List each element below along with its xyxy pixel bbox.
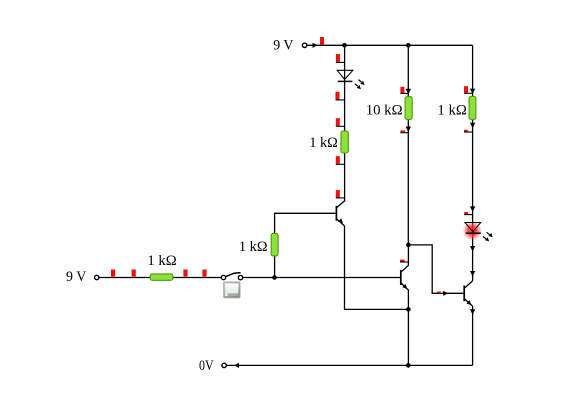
wire 0V rail [226,364,472,366]
wire Q1 emitter down and right to Q2 emitter node [345,226,409,310]
current arrow down above D2 [470,206,475,211]
resistor R3 1 kOhm (vertical, x=472.6) [469,96,476,119]
current dash sliver above Q2 collector [400,260,408,262]
wire middle vertical (x=408.3) top rail down to node C2 [407,45,409,245]
current arrow down below D2 [470,246,475,251]
resistor R1 1 kOhm (horizontal, left 9V rail) [150,274,173,280]
svg-text:9 V: 9 V [273,38,294,54]
current arrow right on Q3 base wire [443,291,448,296]
switch SW1 push button cap [224,282,240,298]
current dash 5 on left branch [336,190,345,198]
current dash sliver below R2 [400,130,408,132]
current dash sliver below R3 [464,130,473,132]
svg-text:9 V: 9 V [66,269,87,285]
svg-text:1 kΩ: 1 kΩ [147,253,176,269]
transistor Q2 (NPN) [401,245,409,310]
switch SW1 push-to-make contacts [221,273,242,280]
junction node top-left [342,43,347,48]
wire switch to Q2 base [243,277,401,279]
current dash 3 on 9V left rail [183,270,187,277]
resistor R5 1 kOhm (vertical, x=344.6) [341,131,348,153]
junction node 0V rail [406,363,411,368]
wire Q2 collector node to Q3 base [408,245,464,293]
wire right vertical (x=472.6) top corner down to Q3 collector [472,45,474,281]
resistor R4 1 kOhm (vertical, x=274.6) [271,233,278,256]
current dash 4 on 9V left rail [202,270,206,277]
svg-text:1 kΩ: 1 kΩ [239,239,268,255]
svg-text:0V: 0V [199,358,214,374]
transistor Q1 (NPN) [336,201,344,226]
current arrow down Q3 emitter [470,309,475,314]
current arrow left after 0V terminal [234,363,239,368]
current arrow down below R2 [406,127,411,132]
wire R4 top corner to Q1 base [275,213,337,277]
current dash on top rail [320,37,324,45]
current dash above R3 [464,86,473,93]
current dash 1 on 9V left rail [111,270,115,277]
current dash sliver above D2 [464,212,472,215]
terminal 0V [222,363,226,367]
current dash 3 on left branch [336,118,345,126]
wire 9V left rail to switch [99,277,221,279]
current arrow down above R2 [406,89,411,94]
wire Q3 emitter down to 0V rail [472,306,474,365]
junction node top-middle [406,43,411,48]
current arrow down Q3 collector [470,271,475,276]
junction node Q2 collector [406,243,411,248]
svg-text:1 kΩ: 1 kΩ [437,102,467,118]
resistor R2 10 kOhm (vertical, x=408.3) [405,97,412,120]
junction node base rail [272,275,277,280]
LED D2 (lit, right branch) [463,221,493,241]
current arrow right after top 9V terminal [313,43,318,48]
current dash sliver on Q3 base wire [437,292,441,294]
svg-text:10 kΩ: 10 kΩ [366,102,403,118]
terminal 9V (left) [95,275,99,279]
wire top rail from 9V terminal to right corner [307,44,473,46]
current dash 1 on left branch [336,54,345,62]
svg-text:1 kΩ: 1 kΩ [309,135,338,151]
transistor Q3 (NPN) [464,281,472,306]
wire Q2 emitter node down to 0V rail [407,309,409,365]
current arrow down below R3 [470,123,475,128]
current arrow down above R3 [470,89,475,94]
current dash 2 on left branch [336,92,345,100]
terminal 9V (top) [302,43,306,47]
wire left branch vertical (x=344.6) top rail down to Q1 collector [344,45,346,202]
current dash above R2 [400,87,408,94]
current dash 4 on left branch [336,156,345,164]
junction node Q2 emitter [406,307,411,312]
current dash 2 on 9V left rail [132,270,136,277]
LED D1 (unlit, top branch) [337,70,364,89]
